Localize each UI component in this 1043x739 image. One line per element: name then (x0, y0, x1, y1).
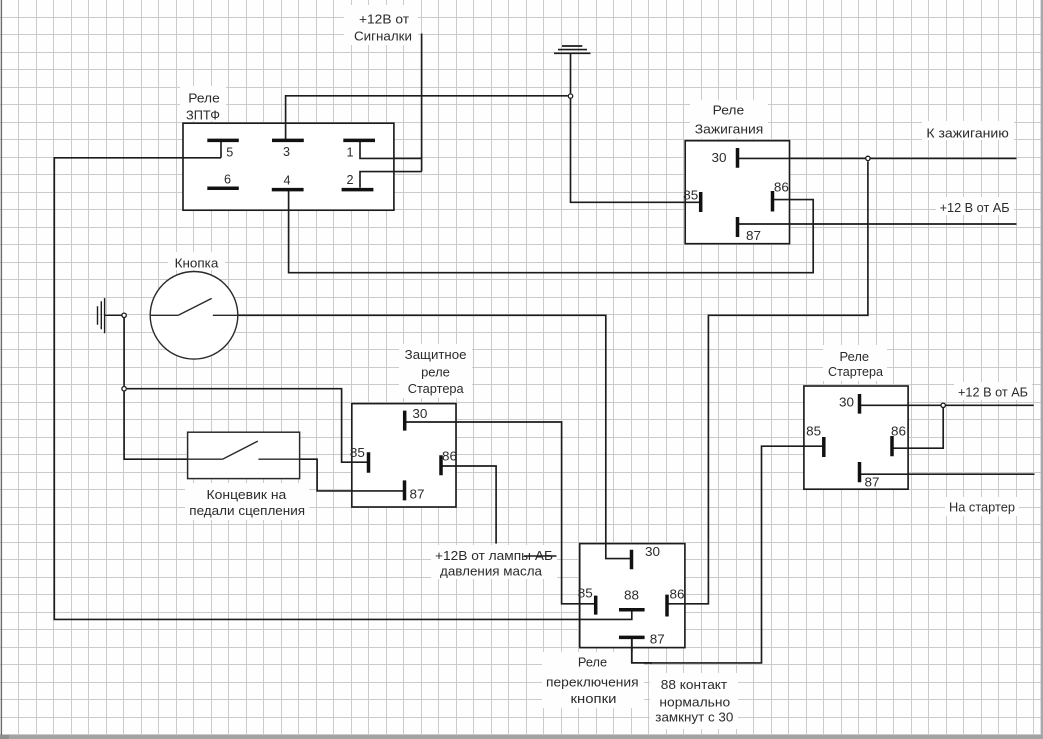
right edge strip (1041, 0, 1043, 735)
svg-text:Реле: Реле (188, 92, 220, 106)
label: +12 V ot AB (lower right) (954, 382, 1032, 400)
svg-text:87: 87 (865, 475, 880, 489)
svg-text:переключения: переключения (546, 675, 639, 689)
svg-text:2: 2 (346, 173, 353, 187)
svg-text:замкнут с 30: замкнут с 30 (655, 711, 733, 725)
wire: node D down and right to clutch pedal switch (124, 392, 188, 460)
wire: switching relay pin 87 stub over label box (632, 639, 652, 663)
node D (branch to protect relay 85) (122, 387, 126, 391)
svg-text:6: 6 (224, 173, 231, 187)
svg-text:87: 87 (650, 633, 665, 647)
label: K zazhiganiyu (922, 121, 1014, 141)
label: Rele Startera (823, 345, 887, 381)
button (knopka) circle (150, 272, 238, 360)
wire: ignition relay pin 87 to "+12 V ot AB" (738, 223, 1017, 225)
label: Kontsevik na pedali stsepleniya (185, 483, 309, 520)
svg-text:реле: реле (421, 366, 450, 380)
svg-text:30: 30 (839, 395, 854, 409)
svg-text:+12В от: +12В от (359, 13, 409, 27)
wire: switching relay pin 87 right and up to starter relay pin 85 (632, 446, 823, 663)
svg-text:Реле: Реле (578, 656, 607, 670)
pin bars relay K5 (30,85,86,88,87) (596, 550, 667, 638)
svg-text:85: 85 (806, 425, 821, 439)
svg-text:88: 88 (624, 589, 639, 603)
svg-text:30: 30 (645, 545, 660, 559)
wire: protect relay pin 86 down to oil lamp label (441, 466, 496, 544)
svg-text:К зажиганию: К зажиганию (926, 127, 1009, 141)
label: Rele ZPTF (180, 86, 226, 123)
relay K5 box "Rele pereklyucheniya knopki" (580, 544, 685, 648)
node A (under top ground) (568, 94, 572, 98)
left page border line (0, 0, 2, 735)
svg-text:86: 86 (891, 425, 906, 439)
wire: node A down and right to ignition relay pin 85 (571, 99, 701, 202)
clutch pedal switch contacts (188, 441, 300, 459)
wire: node B down, left, down to switching relay pin 86 (668, 161, 868, 604)
svg-text:87: 87 (410, 488, 425, 502)
label: Zashchitnoye rele Startera (399, 344, 472, 398)
bottom scrollbar bar (0, 735, 1043, 739)
button switch contacts (150, 298, 238, 315)
ground (left, at button) (98, 298, 122, 333)
relay K3 box "Zashchitnoye rele Startera" (352, 404, 456, 507)
svg-text:30: 30 (712, 151, 727, 165)
wire: node E down to starter relay pin 86 (892, 408, 943, 448)
svg-text:86: 86 (442, 449, 457, 463)
svg-text:На стартер: На стартер (949, 501, 1015, 515)
wire: ZPTF pin 1 to +12V column (360, 140, 422, 158)
wire: ZPTF pin 4 down, right, up to ignition relay pin 86 (289, 191, 814, 273)
svg-text:Зажигания: Зажигания (695, 123, 764, 137)
label: Knopka (168, 252, 225, 270)
wire: button right contact to switching relay pin 30 (238, 315, 631, 558)
svg-text:86: 86 (670, 588, 685, 602)
pin bars relay K4 (30,85,86,87) (824, 394, 892, 482)
svg-text:1: 1 (346, 145, 353, 159)
label: +12V ot Signalki (344, 5, 418, 45)
svg-text:нормально: нормально (659, 696, 730, 710)
node E (starter relay 30/86) (941, 403, 945, 407)
svg-text:85: 85 (578, 586, 593, 600)
svg-text:Стартера: Стартера (828, 365, 883, 379)
svg-text:85: 85 (683, 189, 698, 203)
svg-text:Концевик на: Концевик на (207, 488, 287, 502)
ground (top, near alarm feed) (554, 46, 591, 53)
svg-text:4: 4 (283, 174, 290, 188)
relay K1 box "Rele ZPTF" (183, 123, 394, 210)
pin bars relay K2 (30,85,86,87) (701, 148, 773, 237)
svg-text:Реле: Реле (840, 350, 870, 364)
svg-text:+12 В от АБ: +12 В от АБ (958, 386, 1028, 400)
wire: +12V from alarm down to relay ZPTF pins 1/2 column (421, 34, 423, 172)
wire: ignition relay pin 30 to "K zazhiganiyu" (738, 157, 1017, 159)
svg-text:педали сцепления: педали сцепления (189, 504, 305, 518)
wire: ZPTF pin 5 down-left-bottom-right up to switching relay pin 88 (54, 140, 632, 619)
label: +12 V ot AB (upper) (936, 197, 1014, 215)
svg-text:86: 86 (774, 180, 789, 194)
svg-text:30: 30 (412, 407, 427, 421)
wire: clutch pedal switch to protect relay pin 87 (300, 459, 404, 491)
svg-text:5: 5 (226, 146, 233, 160)
label: Rele Zazhiganiya (690, 100, 768, 138)
svg-text:Стартера: Стартера (408, 382, 464, 396)
label: Rele pereklyucheniya knopki (542, 652, 644, 708)
label: 88 kontakt normalno zamknut s 30 (650, 673, 738, 729)
wire: ZPTF pin 3 up to ground node (286, 96, 568, 140)
svg-text:85: 85 (350, 446, 365, 460)
relay K2 box "Rele Zazhiganiya" (685, 141, 789, 244)
svg-text:Реле: Реле (713, 104, 745, 118)
svg-text:Кнопка: Кнопка (175, 256, 219, 270)
strikethrough over "AB" (524, 555, 557, 557)
svg-text:+12 В от АБ: +12 В от АБ (940, 201, 1010, 215)
svg-text:Сигналки: Сигналки (354, 30, 412, 44)
pin bars relay K3 (30,85,86,87) (369, 411, 442, 501)
svg-text:давления масла: давления масла (440, 565, 542, 579)
label: +12V ot lampy AB davleniya masla (431, 545, 557, 579)
svg-text:Защитное: Защитное (405, 348, 467, 362)
wire re-draws through relay box edges (183, 123, 908, 647)
wire: protect relay pin 30 down to switching relay pin 85 (405, 422, 595, 604)
svg-text:кнопки: кнопки (571, 692, 617, 706)
svg-text:3: 3 (283, 145, 290, 159)
pin bars relay K1 (pins 5,3,1,6,4,2) (207, 140, 375, 189)
node C (button-ground) (122, 313, 126, 317)
wire: button node C down to node D (123, 318, 125, 386)
wire: node D right and down to protect relay pin 85 (127, 389, 368, 463)
wire: starter relay pin 87 to "Na starter" (860, 473, 1035, 475)
wire: ground symbol stem down to node A (570, 53, 572, 93)
svg-text:88 контакт: 88 контакт (661, 678, 728, 692)
wire: starter relay pin 30 to "+12 V ot AB" (right) (860, 404, 1034, 406)
node B (ignition 30 / to pin 86 of K5) (866, 156, 870, 160)
wire: ZPTF pin 2 to +12V column (360, 172, 422, 188)
svg-text:87: 87 (746, 229, 761, 243)
clutch pedal limit switch box (188, 432, 300, 478)
svg-text:ЗПТФ: ЗПТФ (186, 109, 220, 123)
label: Na starter (945, 497, 1019, 516)
relay K4 box "Rele Startera" (804, 386, 908, 489)
